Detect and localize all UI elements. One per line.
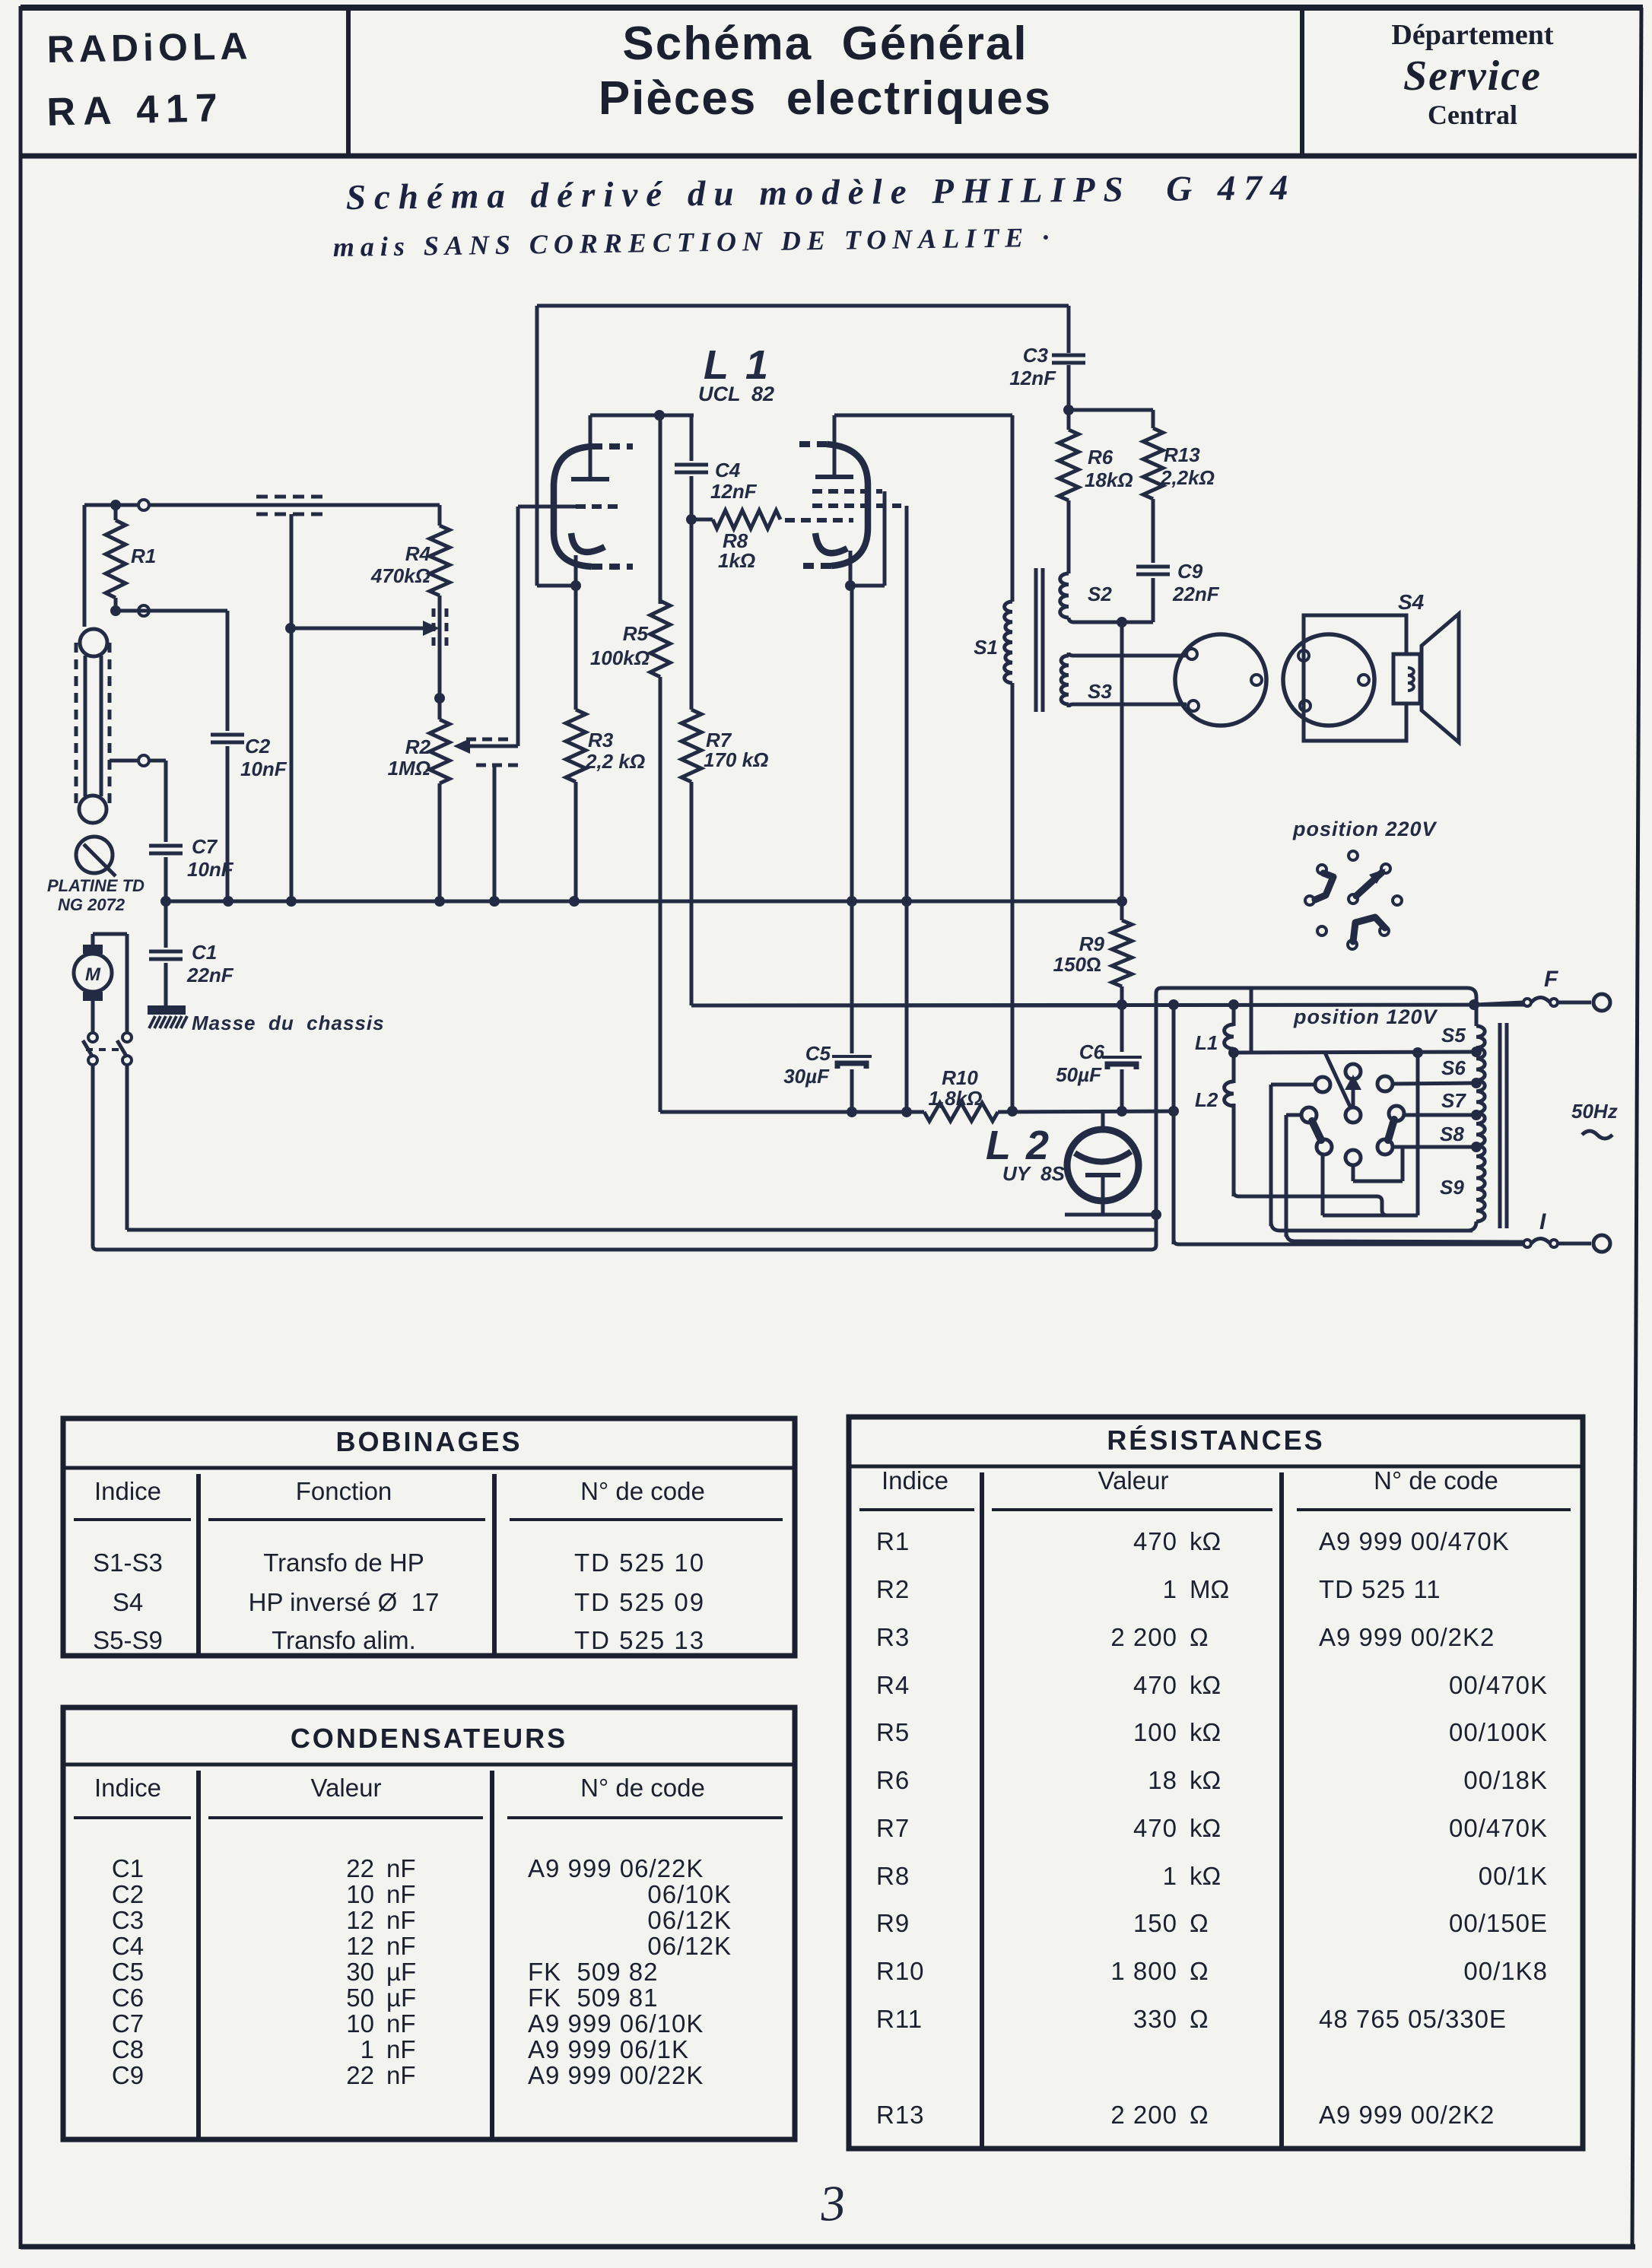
svg-text:50µF: 50µF [1056, 1063, 1102, 1086]
svg-text:10: 10 [346, 2009, 374, 2038]
svg-text:22: 22 [346, 1854, 374, 1882]
svg-text:R3: R3 [876, 1623, 910, 1651]
svg-text:10nF: 10nF [187, 858, 234, 881]
svg-text:A9 999 00/470K: A9 999 00/470K [1319, 1527, 1510, 1555]
svg-text:C9: C9 [112, 2061, 144, 2089]
svg-text:Département: Département [1391, 19, 1553, 51]
svg-text:A9 999 06/22K: A9 999 06/22K [528, 1854, 704, 1882]
svg-text:R5: R5 [623, 622, 649, 645]
svg-text:Indice: Indice [94, 1774, 161, 1802]
svg-text:00/150E: 00/150E [1449, 1909, 1548, 1937]
svg-text:22nF: 22nF [186, 964, 234, 986]
svg-text:S4: S4 [113, 1588, 143, 1616]
svg-text:BOBINAGES: BOBINAGES [335, 1426, 522, 1457]
svg-text:kΩ: kΩ [1190, 1527, 1221, 1555]
svg-text:S8: S8 [1440, 1123, 1464, 1145]
svg-text:470: 470 [1133, 1671, 1177, 1699]
svg-text:TD 525 11: TD 525 11 [1319, 1575, 1441, 1603]
svg-text:S2: S2 [1088, 583, 1112, 605]
svg-text:C1: C1 [112, 1854, 144, 1882]
svg-text:Indice: Indice [94, 1477, 161, 1505]
svg-text:TD 525 13: TD 525 13 [574, 1626, 705, 1654]
svg-text:Ω: Ω [1190, 2101, 1209, 2129]
svg-text:00/470K: 00/470K [1449, 1814, 1548, 1842]
svg-text:C7: C7 [192, 835, 218, 858]
svg-text:TD 525 09: TD 525 09 [574, 1588, 705, 1616]
svg-text:UY 8S: UY 8S [1002, 1162, 1066, 1185]
svg-text:µF: µF [386, 1958, 416, 1986]
svg-text:18: 18 [1148, 1766, 1177, 1794]
svg-text:RA 417: RA 417 [46, 86, 226, 135]
svg-text:22nF: 22nF [1172, 583, 1220, 605]
svg-text:Pièces electriques: Pièces electriques [599, 72, 1052, 125]
svg-text:TD 525 10: TD 525 10 [574, 1549, 705, 1577]
svg-text:F: F [1544, 967, 1558, 992]
svg-text:MΩ: MΩ [1190, 1575, 1229, 1603]
svg-text:UCL 82: UCL 82 [698, 383, 774, 405]
svg-text:R3: R3 [588, 729, 614, 751]
svg-text:Valeur: Valeur [1098, 1466, 1169, 1495]
svg-text:R4: R4 [876, 1671, 910, 1699]
svg-text:A9 999 06/1K: A9 999 06/1K [528, 2035, 689, 2063]
svg-text:470: 470 [1133, 1814, 1177, 1842]
svg-text:µF: µF [386, 1984, 416, 2012]
svg-text:Masse du chassis: Masse du chassis [192, 1012, 385, 1034]
svg-text:1: 1 [1163, 1862, 1177, 1890]
svg-text:2,2kΩ: 2,2kΩ [1160, 466, 1215, 489]
svg-text:S5-S9: S5-S9 [93, 1626, 163, 1654]
svg-text:C5: C5 [805, 1042, 831, 1065]
svg-text:06/10K: 06/10K [647, 1880, 732, 1908]
svg-text:2,2 kΩ: 2,2 kΩ [585, 750, 645, 773]
svg-text:Valeur: Valeur [311, 1774, 382, 1802]
svg-text:C4: C4 [112, 1932, 144, 1960]
svg-text:470: 470 [1133, 1527, 1177, 1555]
svg-text:nF: nF [386, 1880, 416, 1908]
svg-text:position 220V: position 220V [1292, 818, 1438, 840]
svg-text:R9: R9 [876, 1909, 910, 1937]
svg-text:1kΩ: 1kΩ [718, 549, 755, 572]
svg-text:C9: C9 [1177, 560, 1203, 583]
svg-text:nF: nF [386, 2061, 416, 2089]
svg-text:R2: R2 [405, 735, 431, 758]
svg-text:M: M [85, 964, 101, 985]
svg-text:150Ω: 150Ω [1053, 953, 1101, 976]
svg-text:Indice: Indice [882, 1466, 948, 1495]
svg-text:I: I [1539, 1209, 1546, 1234]
svg-text:C3: C3 [1023, 344, 1049, 367]
svg-text:RÉSISTANCES: RÉSISTANCES [1107, 1425, 1324, 1456]
svg-text:nF: nF [386, 1932, 416, 1960]
svg-text:kΩ: kΩ [1190, 1862, 1221, 1890]
svg-text:R10: R10 [876, 1957, 925, 1985]
svg-text:S5: S5 [1441, 1024, 1466, 1047]
svg-text:C2: C2 [245, 735, 271, 758]
svg-text:C4: C4 [715, 459, 741, 481]
svg-text:L 1: L 1 [704, 342, 771, 388]
svg-text:C6: C6 [112, 1984, 144, 2012]
svg-text:L 2: L 2 [986, 1123, 1051, 1168]
svg-text:C8: C8 [112, 2035, 144, 2063]
svg-text:330: 330 [1133, 2005, 1177, 2033]
svg-text:00/1K: 00/1K [1479, 1862, 1548, 1890]
svg-text:FK 509 81: FK 509 81 [528, 1984, 658, 2012]
svg-text:N° de code: N° de code [580, 1774, 705, 1802]
svg-text:00/18K: 00/18K [1463, 1766, 1548, 1794]
svg-text:kΩ: kΩ [1190, 1718, 1221, 1746]
svg-text:3: 3 [818, 2175, 847, 2232]
svg-text:HP inversé Ø 17: HP inversé Ø 17 [249, 1588, 440, 1616]
svg-text:S6: S6 [1441, 1056, 1466, 1079]
svg-text:Schéma Général: Schéma Général [622, 17, 1028, 70]
svg-text:FK 509 82: FK 509 82 [528, 1958, 658, 1986]
svg-text:Ω: Ω [1190, 2005, 1209, 2033]
svg-text:30µF: 30µF [783, 1065, 830, 1088]
svg-text:48 765 05/330E: 48 765 05/330E [1319, 2005, 1507, 2033]
svg-text:18kΩ: 18kΩ [1085, 469, 1133, 491]
svg-text:C3: C3 [112, 1906, 144, 1934]
svg-text:R6: R6 [1088, 446, 1114, 469]
svg-text:06/12K: 06/12K [647, 1932, 732, 1960]
svg-text:150: 150 [1133, 1909, 1177, 1937]
svg-text:R9: R9 [1079, 932, 1105, 955]
svg-text:Central: Central [1428, 100, 1517, 130]
svg-text:06/12K: 06/12K [647, 1906, 732, 1934]
svg-text:2 200: 2 200 [1110, 1623, 1177, 1651]
svg-text:Ω: Ω [1190, 1957, 1209, 1985]
svg-text:nF: nF [386, 2035, 416, 2063]
svg-text:Fonction: Fonction [296, 1477, 392, 1505]
svg-text:A9 999 00/22K: A9 999 00/22K [528, 2061, 704, 2089]
svg-text:Service: Service [1403, 52, 1542, 100]
svg-text:00/100K: 00/100K [1449, 1718, 1548, 1746]
svg-text:Transfo alim.: Transfo alim. [272, 1626, 416, 1654]
svg-text:kΩ: kΩ [1190, 1814, 1221, 1842]
svg-text:S1-S3: S1-S3 [93, 1549, 163, 1577]
svg-text:C1: C1 [192, 941, 217, 964]
svg-text:S3: S3 [1088, 680, 1112, 703]
svg-text:50: 50 [346, 1984, 374, 2012]
svg-text:C6: C6 [1079, 1040, 1105, 1063]
svg-text:12nF: 12nF [1009, 367, 1056, 389]
svg-text:12: 12 [346, 1932, 374, 1960]
svg-text:1MΩ: 1MΩ [388, 757, 430, 780]
svg-text:R10: R10 [942, 1066, 978, 1089]
svg-text:position 120V: position 120V [1293, 1005, 1438, 1028]
svg-text:R1: R1 [876, 1527, 910, 1555]
svg-text:50Hz: 50Hz [1571, 1100, 1618, 1123]
svg-text:R6: R6 [876, 1766, 910, 1794]
svg-text:Transfo de HP: Transfo de HP [263, 1549, 424, 1577]
svg-text:kΩ: kΩ [1190, 1766, 1221, 1794]
svg-text:nF: nF [386, 2009, 416, 2038]
svg-text:C7: C7 [112, 2009, 144, 2038]
svg-text:R4: R4 [405, 542, 431, 565]
svg-text:100kΩ: 100kΩ [590, 646, 650, 669]
svg-text:R1: R1 [131, 545, 156, 567]
svg-text:1 800: 1 800 [1110, 1957, 1177, 1985]
svg-text:R7: R7 [876, 1814, 910, 1842]
svg-text:470kΩ: 470kΩ [370, 564, 430, 587]
svg-text:R8: R8 [876, 1862, 910, 1890]
svg-text:R11: R11 [876, 2005, 923, 2033]
svg-text:1: 1 [1163, 1575, 1177, 1603]
svg-text:NG 2072: NG 2072 [58, 895, 125, 914]
svg-text:N° de code: N° de code [580, 1477, 705, 1505]
svg-text:C2: C2 [112, 1880, 144, 1908]
svg-text:nF: nF [386, 1854, 416, 1882]
svg-text:170 kΩ: 170 kΩ [704, 748, 768, 771]
svg-text:1: 1 [361, 2035, 374, 2063]
svg-text:R5: R5 [876, 1718, 910, 1746]
svg-text:S1: S1 [974, 636, 998, 659]
svg-text:CONDENSATEURS: CONDENSATEURS [291, 1723, 567, 1754]
svg-text:00/1K8: 00/1K8 [1463, 1957, 1548, 1985]
svg-text:R2: R2 [876, 1575, 910, 1603]
svg-text:A9 999 00/2K2: A9 999 00/2K2 [1319, 1623, 1495, 1651]
svg-text:2 200: 2 200 [1110, 2101, 1177, 2129]
svg-text:1,8kΩ: 1,8kΩ [929, 1087, 983, 1110]
svg-text:30: 30 [346, 1958, 374, 1986]
svg-text:RADiOLA: RADiOLA [46, 24, 253, 71]
svg-text:Ω: Ω [1190, 1909, 1209, 1937]
svg-text:S4: S4 [1398, 590, 1425, 614]
svg-text:Ω: Ω [1190, 1623, 1209, 1651]
svg-text:100: 100 [1133, 1718, 1177, 1746]
svg-text:00/470K: 00/470K [1449, 1671, 1548, 1699]
svg-text:kΩ: kΩ [1190, 1671, 1221, 1699]
svg-text:PLATINE TD: PLATINE TD [47, 876, 145, 895]
svg-text:S7: S7 [1441, 1089, 1466, 1112]
svg-text:L2: L2 [1195, 1088, 1218, 1111]
svg-text:A9 999 00/2K2: A9 999 00/2K2 [1319, 2101, 1495, 2129]
svg-text:L1: L1 [1195, 1031, 1218, 1054]
svg-text:12: 12 [346, 1906, 374, 1934]
svg-text:10: 10 [346, 1880, 374, 1908]
svg-text:22: 22 [346, 2061, 374, 2089]
svg-text:10nF: 10nF [240, 758, 288, 780]
svg-text:N° de code: N° de code [1374, 1466, 1498, 1495]
svg-text:nF: nF [386, 1906, 416, 1934]
svg-text:12nF: 12nF [710, 480, 758, 503]
svg-text:S9: S9 [1440, 1176, 1464, 1199]
svg-text:A9 999 06/10K: A9 999 06/10K [528, 2009, 704, 2038]
svg-text:R13: R13 [876, 2101, 925, 2129]
svg-text:C5: C5 [112, 1958, 144, 1986]
svg-text:R13: R13 [1164, 443, 1200, 466]
